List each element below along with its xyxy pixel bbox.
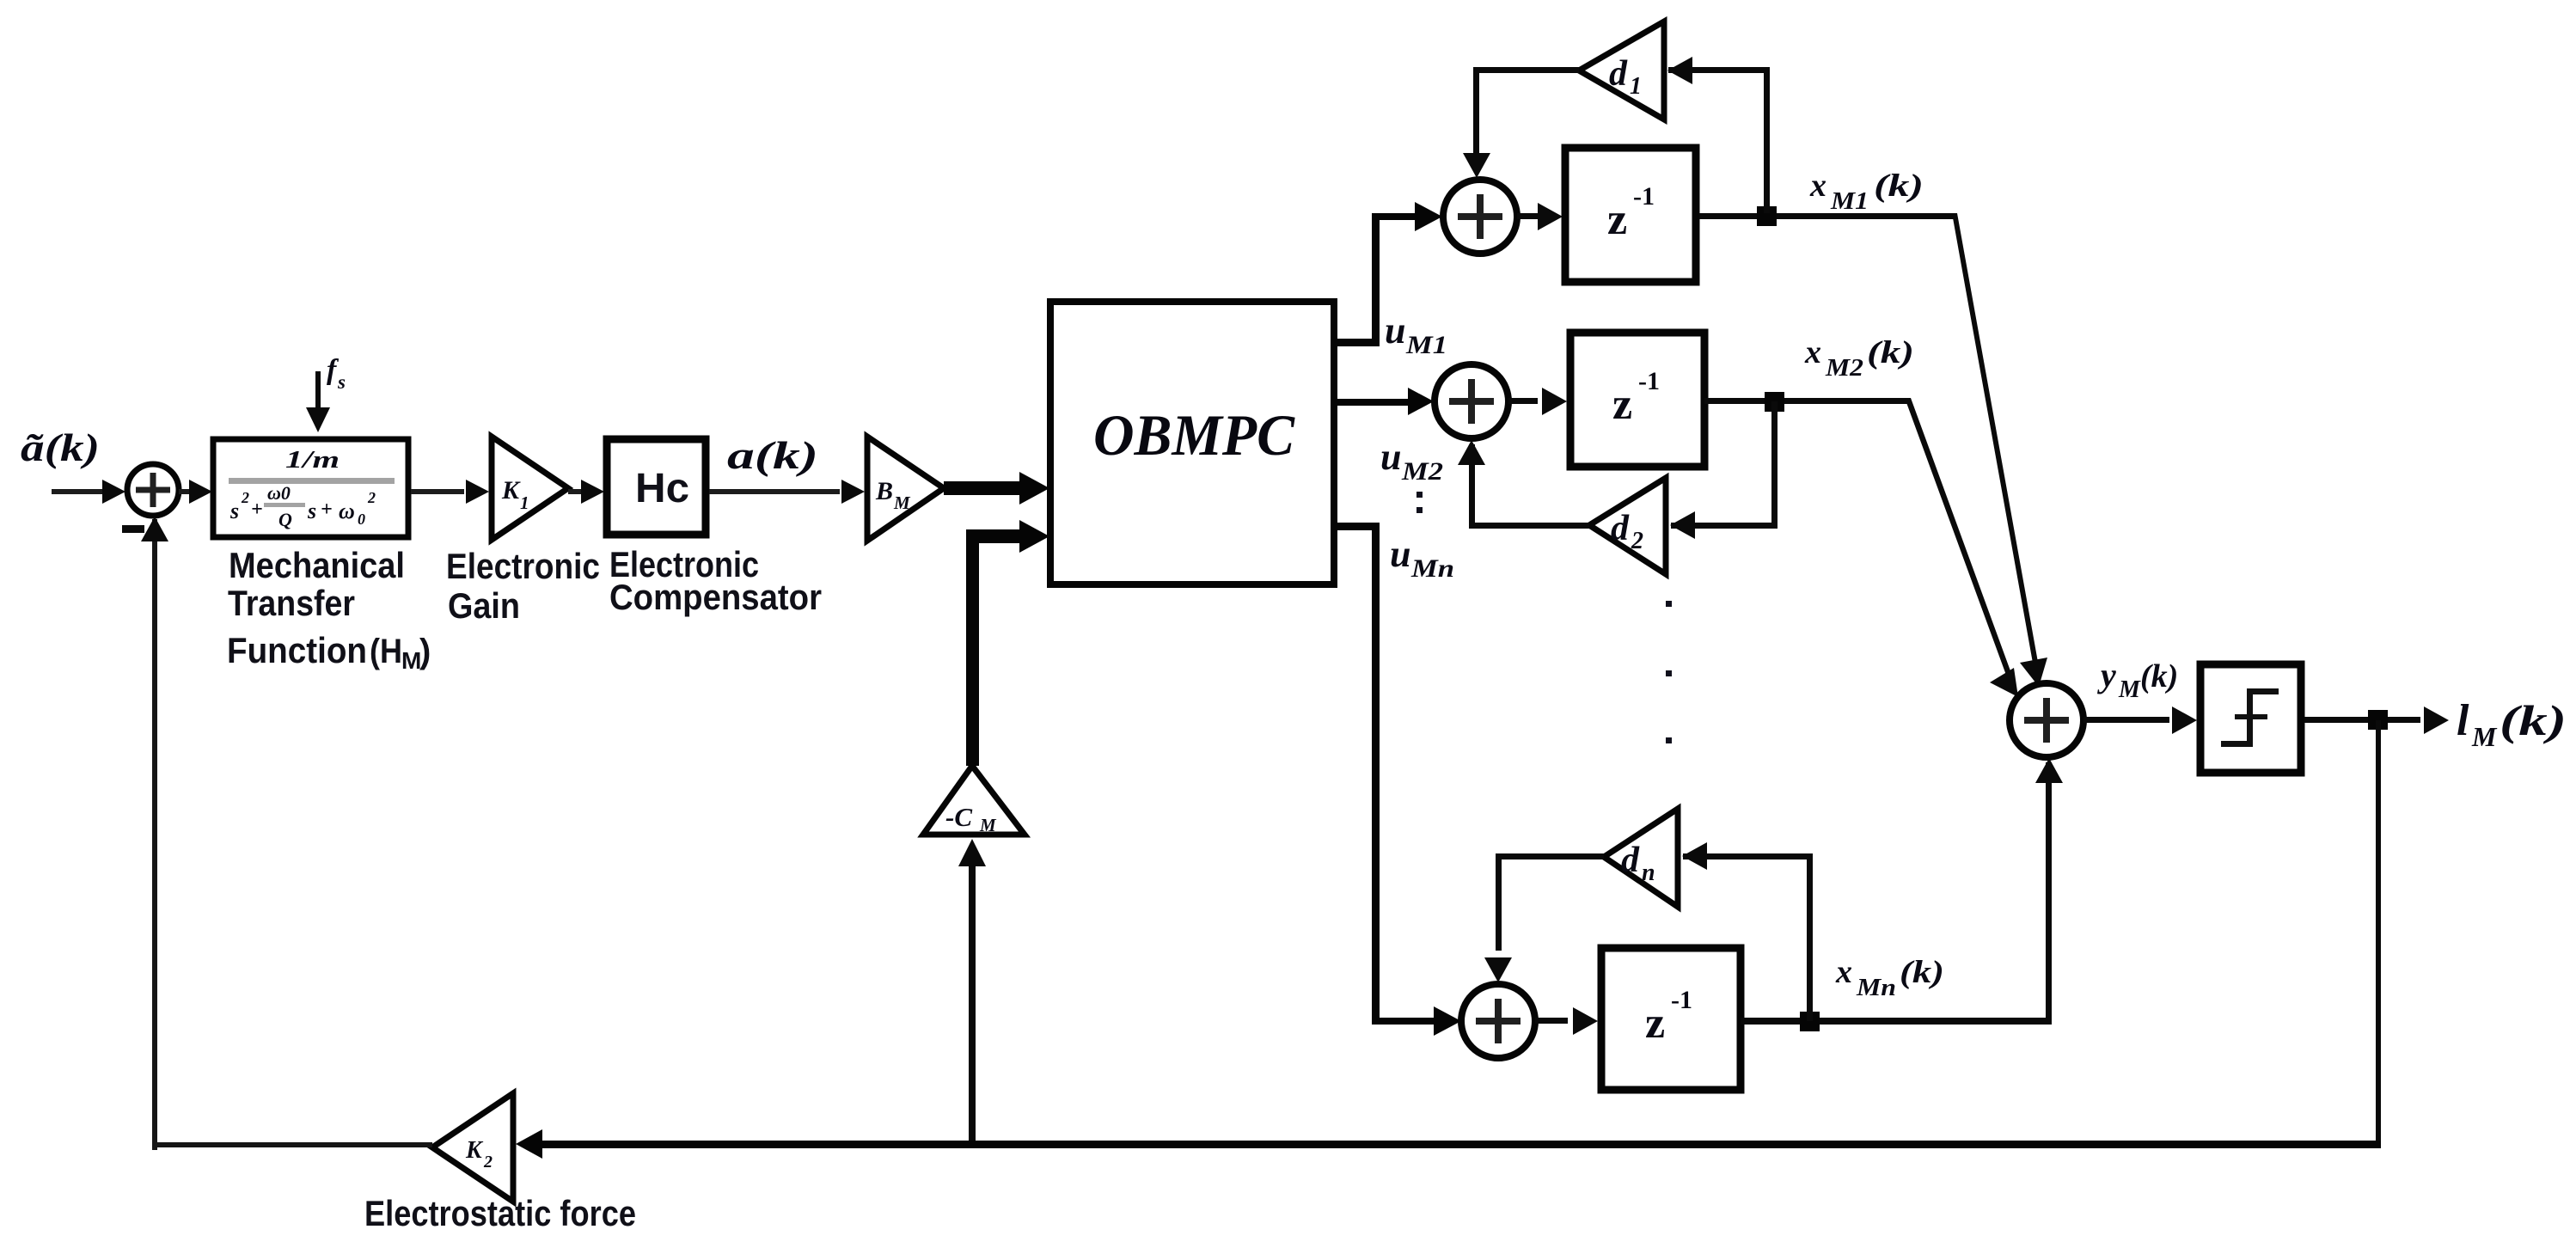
label electrostatic force	[364, 1193, 636, 1233]
node uM1 label	[1385, 309, 1447, 359]
wire S3 to Z3	[1535, 1007, 1598, 1035]
svg-text:M2: M2	[1825, 354, 1863, 382]
svg-text:y: y	[2097, 656, 2116, 694]
svg-text:M: M	[401, 647, 421, 674]
svg-text:K: K	[465, 1137, 484, 1164]
svg-text:z: z	[1607, 195, 1627, 244]
svg-text:M: M	[979, 815, 997, 835]
amplifier K1 electronic gain	[492, 437, 568, 540]
summing junction S2	[1435, 364, 1508, 438]
wire OBMPC output uMn down to S3	[1334, 523, 1461, 1036]
svg-text:d: d	[1609, 54, 1628, 94]
minus sign at S0	[122, 525, 144, 533]
svg-text:ω0: ω0	[267, 482, 291, 504]
svg-text:u: u	[1380, 436, 1401, 478]
svg-text:1: 1	[520, 492, 529, 513]
wire feedback bottom line to K2	[516, 1129, 2381, 1159]
wire S1 to Z1	[1517, 203, 1563, 230]
amplifier -CM	[923, 766, 1025, 835]
node xMn(k) label	[1835, 954, 1944, 1001]
svg-text:2: 2	[1631, 528, 1643, 554]
svg-text:Electrostatic force: Electrostatic force	[364, 1193, 636, 1233]
label electronic compensator	[609, 544, 822, 617]
svg-text:ω: ω	[339, 499, 355, 523]
svg-text:ã(k): ã(k)	[21, 425, 100, 469]
svg-text:Mechanical: Mechanical	[229, 545, 405, 585]
block Hc electronic compensator	[607, 439, 706, 535]
svg-text:Compensator: Compensator	[609, 577, 822, 617]
summing junction S1	[1443, 180, 1517, 254]
svg-text:Function: Function	[227, 630, 367, 670]
svg-text:): )	[419, 633, 431, 670]
node dots below uM2	[1416, 492, 1423, 513]
label mechanical transfer function	[227, 545, 431, 674]
wire quantizer output with junction to lM(k)	[2304, 707, 2449, 734]
wire feedback Z2 output down to d2	[1670, 401, 1778, 539]
amplifier d1	[1579, 21, 1664, 119]
svg-text:(k): (k)	[1867, 335, 1914, 370]
svg-text:Mn: Mn	[1856, 974, 1896, 1001]
svg-text:-1: -1	[1633, 182, 1655, 211]
svg-text:M: M	[893, 492, 911, 513]
block Z2 delay z-1	[1570, 333, 1704, 467]
svg-text:u: u	[1385, 309, 1405, 352]
svg-text:(k): (k)	[1874, 168, 1924, 204]
wire feedback down from output junction	[2376, 720, 2381, 1145]
amplifier d2	[1589, 478, 1666, 574]
svg-text:M1: M1	[1405, 331, 1447, 359]
block OBMPC	[1050, 302, 1334, 584]
wire d1 output down into S1	[1463, 67, 1579, 178]
svg-text:x: x	[1804, 334, 1821, 370]
amplifier BM	[867, 437, 944, 541]
wire diagonal xM1 to S4	[1952, 213, 2047, 687]
wire S0 to mechanical block	[179, 480, 212, 504]
svg-text:(k): (k)	[2140, 658, 2178, 694]
wire Z3 output right with junction	[1741, 1012, 2052, 1031]
block quantizer	[2200, 664, 2301, 773]
svg-text:n: n	[1642, 859, 1655, 886]
svg-text:+: +	[321, 499, 333, 521]
svg-text:z: z	[1645, 999, 1665, 1048]
node input a~(k) label	[21, 425, 100, 469]
wire OBMPC output uM2 to S2	[1334, 388, 1434, 415]
node fs input arrow	[306, 354, 346, 432]
wire input to summing junction S0	[52, 480, 125, 504]
svg-text:-1: -1	[1638, 367, 1660, 395]
block Z3 delay z-1	[1601, 948, 1741, 1090]
node uM2 label	[1380, 436, 1443, 486]
svg-text:(H: (H	[370, 633, 402, 670]
svg-text:1/m: 1/m	[285, 447, 340, 474]
svg-text:x: x	[1835, 954, 1852, 990]
node uMn label	[1390, 533, 1454, 583]
svg-text:0: 0	[358, 511, 365, 528]
svg-text:(k): (k)	[2500, 696, 2567, 744]
wire Z1 output to bend with junction	[1699, 206, 1956, 226]
svg-text:2: 2	[483, 1153, 493, 1171]
label electronic gain	[446, 546, 600, 626]
svg-text:x: x	[1809, 168, 1826, 204]
wire diagonal xM2 to S4	[1905, 398, 2018, 697]
svg-text:+: +	[251, 499, 263, 521]
svg-text:M2: M2	[1401, 457, 1443, 486]
wire OBMPC output uM1 up to S1	[1334, 202, 1442, 346]
svg-text:Electronic: Electronic	[446, 546, 600, 586]
wire block to K1	[411, 480, 489, 504]
wire Z2 output to bend with junction	[1704, 392, 1909, 412]
wire K2 output left and up into S0	[141, 517, 432, 1150]
wire -CM output to OBMPC second input thick	[966, 520, 1049, 766]
wire S2 to Z2	[1508, 388, 1567, 415]
svg-text:1: 1	[1630, 73, 1642, 100]
wire S4 to quantizer	[2083, 707, 2197, 734]
svg-text:l: l	[2457, 696, 2469, 745]
node xM1(k) label	[1809, 168, 1924, 215]
svg-text:d: d	[1611, 509, 1630, 548]
svg-text:Mn: Mn	[1410, 554, 1454, 583]
node dots between row2 and row3	[1666, 601, 1672, 743]
svg-text:z: z	[1612, 380, 1632, 429]
node yM(k) label	[2097, 656, 2178, 703]
wire d2 output up into S2	[1458, 440, 1589, 529]
svg-text:M: M	[2471, 721, 2498, 752]
svg-text:s: s	[229, 499, 239, 523]
wire dn output down into S3	[1484, 853, 1604, 982]
svg-text:-C: -C	[945, 802, 972, 832]
wire feedback Z1 output up to d1	[1667, 57, 1770, 213]
svg-text:-1: -1	[1671, 986, 1692, 1014]
summing junction S3	[1461, 984, 1535, 1058]
svg-text:a(k): a(k)	[727, 433, 818, 477]
svg-text:(k): (k)	[1900, 955, 1944, 990]
svg-text:d: d	[1621, 841, 1640, 880]
node lM(k) output label	[2457, 696, 2567, 752]
node a(k) label	[727, 433, 818, 477]
svg-text:Hc: Hc	[635, 466, 689, 511]
wire feedback Z3 output up to dn	[1682, 842, 1813, 1021]
svg-text:2: 2	[367, 489, 376, 506]
svg-text:Gain: Gain	[448, 585, 520, 626]
wire K1 to Hc	[568, 480, 604, 504]
svg-text:M1: M1	[1830, 187, 1869, 215]
svg-text:B: B	[875, 477, 893, 505]
wire BM to OBMPC thick	[944, 472, 1049, 505]
svg-text:s: s	[337, 371, 346, 393]
svg-text:u: u	[1390, 533, 1410, 575]
amplifier K2 electrostatic force	[432, 1093, 513, 1202]
wire feedback tap up into -CM	[958, 839, 986, 1147]
wire Hc to BM with a(k) label	[709, 480, 865, 504]
block Z1 delay z-1	[1565, 148, 1696, 282]
summing junction S0	[127, 464, 179, 516]
svg-text:OBMPC: OBMPC	[1093, 402, 1295, 468]
block mechanical transfer function HM	[213, 439, 408, 537]
node xM2(k) label	[1804, 334, 1914, 382]
svg-text:M: M	[2118, 676, 2141, 703]
wire xMn up into S4	[2035, 758, 2063, 1021]
svg-text:Transfer: Transfer	[228, 583, 355, 623]
svg-text:s: s	[307, 499, 316, 523]
svg-text:K: K	[501, 476, 521, 505]
amplifier dn	[1604, 809, 1678, 907]
svg-text:Q: Q	[278, 509, 292, 530]
svg-text:2: 2	[241, 489, 249, 506]
summing junction S4	[2010, 683, 2083, 757]
